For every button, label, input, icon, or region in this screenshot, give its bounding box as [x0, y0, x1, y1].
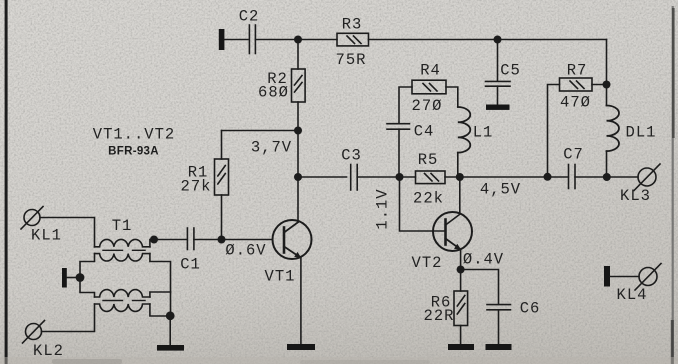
svg-text:75R: 75R	[336, 51, 367, 69]
wire (DL1 bottom)	[606, 151, 608, 177]
node (R7/DL1)	[603, 81, 611, 89]
transformer T1 winding 2b	[95, 304, 150, 311]
svg-text:R3: R3	[342, 16, 363, 34]
wire	[224, 39, 248, 41]
svg-text:4,5V: 4,5V	[480, 181, 521, 199]
wire (mid rail left)	[298, 176, 347, 178]
transistor VT2	[433, 212, 472, 251]
svg-text:C5: C5	[500, 62, 521, 80]
T1 core dashes top	[103, 249, 145, 251]
ground (T1)	[157, 345, 184, 351]
wire (KL4)	[610, 276, 639, 278]
node (T1 centre)	[76, 273, 85, 282]
capacitor C4	[387, 124, 410, 130]
node (C2/R3/R2)	[294, 36, 302, 44]
wire (T1 w1b right drop)	[150, 254, 171, 316]
scan border left	[5, 0, 8, 364]
svg-text:VT1..VT2: VT1..VT2	[93, 126, 175, 144]
wire (C4 top)	[399, 87, 412, 124]
node (VT1 collector)	[294, 173, 302, 181]
wire (VT2 emitter)	[460, 250, 462, 270]
terminal KL3	[634, 164, 660, 191]
transformer T1 winding 2a	[95, 290, 150, 297]
wire (top rail corner down)	[606, 40, 608, 85]
inductor L1	[458, 107, 470, 153]
wire (R1 bottom)	[221, 195, 223, 240]
svg-text:22k: 22k	[413, 190, 444, 208]
resistor R7	[560, 78, 593, 91]
svg-text:T1: T1	[112, 217, 133, 235]
node (VT2 emitter)	[457, 266, 465, 274]
node (VT1 base)	[218, 236, 226, 244]
wire (KL1 to T1)	[40, 218, 95, 247]
wire (C7 right to KL3)	[575, 176, 638, 178]
wire (top rail to right)	[369, 39, 607, 41]
svg-text:R4: R4	[420, 62, 441, 80]
wire (R2 top)	[297, 40, 299, 70]
input coax bar	[219, 29, 225, 50]
svg-text:KL1: KL1	[31, 227, 62, 245]
node (R2/R1 bias)	[294, 127, 302, 135]
capacitor C6	[487, 305, 511, 310]
wire (C6 bottom)	[498, 310, 500, 344]
transformer T1 winding 1b	[95, 254, 150, 261]
svg-text:3,7V: 3,7V	[251, 139, 292, 157]
wire (bias node to R1)	[222, 130, 299, 132]
wire (T1 w1a right riser)	[150, 240, 155, 247]
T1 core dashes bottom	[103, 300, 145, 302]
svg-text:R7: R7	[567, 62, 588, 80]
svg-text:Ø.4V: Ø.4V	[463, 251, 504, 269]
wire (VT2 collector)	[459, 177, 461, 214]
terminal KL4	[635, 264, 661, 291]
transistor VT1	[273, 220, 312, 259]
wire (DL1 top)	[606, 85, 608, 106]
svg-text:C2: C2	[239, 8, 260, 26]
svg-text:VT1: VT1	[265, 268, 296, 286]
wire (R1 top)	[221, 131, 223, 160]
wire (R4 right to L1)	[446, 87, 458, 107]
resistor R5	[416, 171, 446, 184]
chassis bar T1	[62, 268, 67, 288]
node (VT2 base tap)	[396, 173, 404, 181]
svg-text:VT2: VT2	[412, 254, 443, 272]
svg-text:C4: C4	[414, 123, 435, 141]
wire (C6 top)	[461, 270, 499, 305]
resistor R2	[292, 69, 306, 102]
capacitor C7	[569, 165, 576, 189]
svg-text:DL1: DL1	[626, 124, 657, 142]
wire (centre to w2a)	[80, 278, 95, 298]
resistor R1	[215, 159, 229, 195]
svg-text:C7: C7	[563, 146, 584, 164]
terminal KL1	[21, 207, 43, 230]
wire (R6 top)	[460, 270, 462, 292]
svg-text:R5: R5	[418, 151, 439, 169]
svg-text:27k: 27k	[181, 178, 212, 196]
ground (R6)	[448, 344, 474, 350]
svg-text:L1: L1	[473, 124, 494, 142]
node (DL1/C7/KL3)	[603, 173, 611, 181]
wire (R7 left drop)	[548, 85, 560, 178]
svg-text:1.1V: 1.1V	[374, 188, 392, 229]
wire (chassis stub)	[67, 277, 77, 279]
wire (R7 right)	[592, 84, 607, 86]
wire	[255, 39, 337, 41]
node (T1 out)	[150, 236, 158, 244]
capacitor C5	[486, 81, 511, 86]
svg-text:KL3: KL3	[620, 187, 651, 205]
wire (R6 bottom)	[460, 326, 462, 345]
svg-text:C6: C6	[520, 300, 541, 318]
wire (L1 bottom)	[457, 153, 459, 177]
svg-text:C3: C3	[341, 147, 362, 165]
capacitor C3	[351, 165, 358, 191]
wire (T1 w1b left drop)	[80, 254, 95, 278]
bottom scan shade	[0, 357, 678, 364]
wire (w2b left to KL2)	[42, 304, 95, 332]
inductor DL1	[607, 106, 620, 152]
transformer T1 winding 1a	[95, 239, 150, 246]
wire (C4 bottom)	[398, 129, 400, 177]
node (R7 drop)	[544, 173, 552, 181]
wire (VT1 collector)	[297, 177, 299, 221]
svg-text:C1: C1	[180, 256, 201, 274]
wire (C5 top)	[497, 40, 499, 82]
capacitor C2	[249, 25, 255, 54]
wire (R5 right to C7)	[445, 176, 568, 178]
node (L1/VT2 collector)	[456, 173, 464, 181]
terminal KL2	[23, 321, 45, 344]
svg-text:47Ø: 47Ø	[560, 94, 591, 112]
scan border right	[672, 6, 674, 364]
svg-text:Ø.6V: Ø.6V	[225, 242, 266, 260]
wire (VT2 base L)	[400, 177, 446, 231]
ground (VT1)	[287, 344, 315, 350]
wire (to C1)	[154, 239, 187, 241]
wire (R2 bottom)	[297, 102, 299, 131]
wire (C3 to R5)	[357, 176, 415, 178]
svg-text:22R: 22R	[424, 307, 455, 325]
wire (C1 to VT1 base)	[194, 239, 273, 241]
resistor R6	[454, 291, 468, 326]
wire (node to collector)	[297, 131, 299, 178]
resistor R3	[337, 33, 369, 46]
node (T1 ground)	[166, 311, 175, 320]
wire (node to ground)	[169, 316, 171, 345]
svg-text:68Ø: 68Ø	[258, 84, 289, 102]
svg-text:BFR-93A: BFR-93A	[108, 146, 159, 158]
svg-text:KL4: KL4	[617, 286, 648, 304]
wire (VT1 emitter)	[300, 258, 302, 344]
wire (C5 bottom)	[497, 86, 499, 104]
capacitor C1	[187, 228, 194, 250]
wire (w2a right riser)	[150, 292, 171, 297]
resistor R4	[412, 80, 446, 94]
wire (w2b right to ground node)	[150, 304, 170, 316]
ground (C5)	[486, 105, 510, 110]
ground (C6)	[486, 344, 512, 350]
chassis bar KL4	[604, 266, 610, 287]
svg-text:27Ø: 27Ø	[412, 97, 443, 115]
node (C5 tap)	[494, 36, 502, 44]
